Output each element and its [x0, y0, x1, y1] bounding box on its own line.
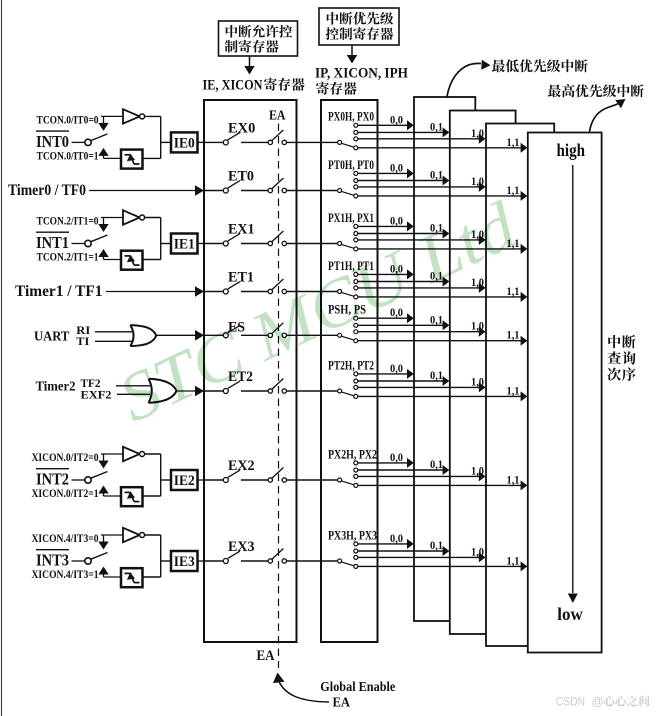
- svg-text:XICON.0/IT2=0: XICON.0/IT2=0: [32, 452, 99, 464]
- svg-text:EX3: EX3: [228, 539, 255, 555]
- svg-text:ET0: ET0: [228, 169, 254, 185]
- svg-text:1,1: 1,1: [507, 286, 520, 298]
- svg-text:0,1: 0,1: [430, 459, 443, 471]
- svg-text:1,0: 1,0: [471, 321, 484, 333]
- svg-text:1,0: 1,0: [471, 465, 484, 477]
- svg-text:IE2: IE2: [174, 473, 195, 489]
- svg-text:UART: UART: [34, 330, 70, 345]
- svg-text:@: @: [592, 695, 604, 709]
- svg-text:TCON.0/IT0=0: TCON.0/IT0=0: [37, 114, 99, 126]
- svg-text:EA: EA: [257, 648, 275, 664]
- svg-text:0,0: 0,0: [390, 215, 403, 227]
- svg-text:INT3: INT3: [36, 551, 69, 570]
- svg-text:EX2: EX2: [228, 458, 255, 474]
- svg-text:Timer0 / TF0: Timer0 / TF0: [8, 182, 86, 199]
- svg-text:0,0: 0,0: [390, 363, 403, 375]
- svg-text:PX3H, PX3: PX3H, PX3: [328, 528, 377, 542]
- svg-text:PT0H, PT0: PT0H, PT0: [328, 158, 374, 172]
- svg-text:TCON.0/IT0=1: TCON.0/IT0=1: [37, 150, 99, 162]
- svg-text:Timer2: Timer2: [36, 380, 76, 395]
- svg-text:0,1: 0,1: [430, 121, 443, 133]
- svg-text:1,1: 1,1: [507, 137, 520, 149]
- svg-text:EX0: EX0: [228, 120, 255, 136]
- svg-text:0,1: 0,1: [430, 314, 443, 326]
- svg-text:RI: RI: [76, 325, 91, 337]
- svg-text:1,1: 1,1: [507, 474, 520, 486]
- svg-text:PT2H, PT2: PT2H, PT2: [328, 358, 374, 372]
- svg-text:IE1: IE1: [174, 237, 195, 253]
- svg-text:0,0: 0,0: [390, 114, 403, 126]
- svg-text:PX2H, PX2: PX2H, PX2: [328, 447, 377, 461]
- svg-text:CSDN: CSDN: [556, 695, 585, 709]
- svg-text:0,0: 0,0: [390, 162, 403, 174]
- svg-text:1,0: 1,0: [471, 376, 484, 388]
- svg-text:1,1: 1,1: [507, 330, 520, 342]
- svg-text:XICON.0/IT2=1: XICON.0/IT2=1: [32, 488, 99, 500]
- svg-text:IP, XICON, IPH: IP, XICON, IPH: [315, 66, 409, 82]
- svg-text:IE3: IE3: [174, 554, 195, 570]
- svg-text:high: high: [557, 140, 586, 160]
- svg-text:PX0H, PX0: PX0H, PX0: [328, 110, 374, 124]
- svg-text:0,1: 0,1: [430, 540, 443, 552]
- svg-text:TCON.2/IT1=0: TCON.2/IT1=0: [37, 216, 99, 228]
- svg-text:EX1: EX1: [228, 222, 255, 238]
- svg-text:INT0: INT0: [36, 132, 69, 151]
- svg-text:IE, XICON: IE, XICON: [203, 78, 263, 94]
- svg-text:EXF2: EXF2: [81, 389, 112, 401]
- svg-text:1,1: 1,1: [507, 185, 520, 197]
- svg-text:PX1H, PX1: PX1H, PX1: [328, 211, 374, 225]
- svg-text:1,1: 1,1: [507, 555, 520, 567]
- svg-text:INT1: INT1: [36, 233, 69, 252]
- svg-text:EA: EA: [269, 109, 286, 124]
- svg-text:ET1: ET1: [228, 270, 254, 286]
- svg-text:EA: EA: [333, 696, 351, 711]
- svg-text:1,0: 1,0: [471, 176, 484, 188]
- svg-text:0,0: 0,0: [390, 533, 403, 545]
- svg-text:Global Enable: Global Enable: [320, 680, 395, 695]
- svg-text:TF2: TF2: [81, 378, 101, 390]
- svg-text:1,0: 1,0: [471, 546, 484, 558]
- svg-text:IE0: IE0: [174, 136, 195, 152]
- svg-text:low: low: [557, 604, 583, 624]
- svg-text:INT2: INT2: [36, 470, 69, 489]
- svg-text:TI: TI: [76, 336, 90, 348]
- svg-text:TCON.2/IT1=1: TCON.2/IT1=1: [37, 252, 99, 264]
- svg-text:0,0: 0,0: [390, 452, 403, 464]
- svg-text:0,1: 0,1: [430, 170, 443, 182]
- svg-text:0,1: 0,1: [430, 370, 443, 382]
- svg-text:XICON.4/IT3=0: XICON.4/IT3=0: [32, 533, 99, 545]
- svg-text:1,0: 1,0: [471, 128, 484, 140]
- svg-text:1,1: 1,1: [507, 385, 520, 397]
- svg-text:Timer1 / TF1: Timer1 / TF1: [15, 283, 103, 300]
- svg-text:XICON.4/IT3=1: XICON.4/IT3=1: [32, 569, 99, 581]
